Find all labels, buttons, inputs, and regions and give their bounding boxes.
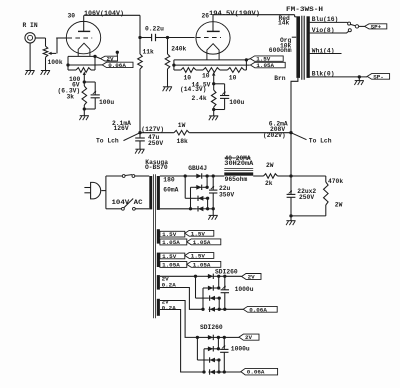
wire to 2V tag (95, 56, 101, 58)
resistor 10 ohm right (227, 68, 244, 73)
wire (196, 69, 203, 71)
svg-text:To Lch: To Lch (96, 138, 119, 145)
svg-text:Blu(16): Blu(16) (312, 16, 338, 23)
wire V2 plate up (212, 15, 214, 32)
switch power bottom pole (122, 199, 136, 211)
wire node A to 18k (140, 132, 174, 134)
wire bus right vert V2 (245, 60, 247, 70)
net label box 1.5V #2 (160, 253, 185, 260)
capacitor 100u bypass V2 (214, 84, 230, 110)
wire wiper riser (56, 38, 58, 53)
junction Blk ground (358, 75, 361, 78)
resistor 2k 2W (264, 174, 278, 179)
node A 126V (138, 131, 141, 134)
wire filament bus top (68, 55, 95, 57)
wire Blu tap (310, 21, 348, 23)
svg-text:240k: 240k (171, 46, 186, 53)
wire 2V#2 bottom routed (160, 310, 204, 373)
wire V2 grid (dashed) (196, 37, 221, 39)
svg-text:SP-: SP- (373, 73, 384, 80)
wire to 0.06A out tag 2 (224, 371, 241, 373)
svg-text:965ohm: 965ohm (225, 176, 248, 183)
wire to switch bottom (106, 208, 122, 210)
capacitor 100u bypass V1 (84, 82, 100, 109)
svg-text:10: 10 (229, 75, 237, 82)
wire Org tap stub (292, 36, 296, 38)
terminal tag 0.06A filament V1 (102, 62, 133, 69)
svg-text:194.5V(190V): 194.5V(190V) (209, 10, 260, 17)
input jack J1 R-IN (25, 33, 35, 43)
wire stub above 2V tag (116, 52, 118, 56)
wire to ground (358, 77, 360, 81)
wire to V1 grid (56, 37, 67, 39)
wiper arrow hum pot V2 (212, 72, 215, 76)
wire to primary bottom (135, 208, 149, 210)
wire filter bottom (291, 215, 326, 217)
svg-text:104V AC: 104V AC (112, 199, 143, 206)
power transformer T1 Kasuga O-BS70 (149, 174, 160, 318)
wire plate rail (84, 14, 140, 16)
svg-text:GBU4J: GBU4J (188, 165, 207, 172)
ground 47u (135, 149, 145, 153)
capacitor C1 0.22u coupling (140, 34, 168, 41)
net label box 1.05A #2 (160, 262, 187, 269)
resistor R 11k plate load V1 (138, 38, 143, 133)
svg-text:60mA: 60mA (163, 187, 178, 194)
svg-text:2V: 2V (248, 274, 256, 281)
wire to V2 grid (168, 37, 195, 39)
wire center tap down (213, 76, 215, 84)
wire to 0.06A tag (95, 64, 102, 66)
svg-text:1.5V: 1.5V (191, 253, 206, 260)
svg-text:3k: 3k (67, 93, 75, 100)
wire bus left vert V2 (173, 60, 175, 70)
svg-text:10: 10 (184, 75, 192, 82)
capacitor 1000u #1 (221, 276, 229, 309)
junction V1 cathode bottom (83, 107, 86, 110)
terminal tag 2V filament V1 (101, 56, 118, 63)
pointer line To Lch (left) (124, 133, 141, 141)
capacitor 47u 250V (135, 133, 145, 150)
wire to primary top (135, 175, 150, 177)
terminal tag 1.5V filament V2 (250, 56, 283, 63)
bridge rectifier SDI260 #2 (197, 335, 224, 375)
wire (68, 69, 76, 71)
svg-text:600ohm: 600ohm (269, 47, 292, 54)
capacitor 22ux2 250V (287, 176, 296, 216)
capacitor 22u 350V filter (209, 176, 217, 209)
label 40-20MA struck (225, 155, 251, 162)
wire Blk tap (310, 76, 368, 78)
wire bus right vert (94, 56, 96, 70)
wire 18k to node B (189, 132, 291, 134)
wire Vio tap (310, 32, 349, 33)
junction bus right (93, 55, 96, 58)
svg-text:126V: 126V (114, 125, 129, 132)
wire to fuse/switch top (106, 175, 122, 177)
svg-text:(202V): (202V) (263, 132, 286, 139)
switch power top pole (122, 175, 135, 178)
wire to ground (83, 109, 85, 116)
wire to 470k (291, 175, 326, 177)
terminal tag 1.05A #1 (187, 239, 221, 246)
svg-text:1000u: 1000u (231, 346, 250, 353)
ground V2 cathode (209, 116, 219, 120)
net label box 1.05A #1 (160, 239, 187, 246)
terminal tag 2V out #2 (239, 334, 259, 341)
svg-text:R IN: R IN (23, 22, 38, 29)
wire down to coupling node (139, 15, 141, 37)
svg-text:0.22u: 0.22u (145, 26, 164, 33)
potentiometer VR1 100k (43, 38, 56, 71)
svg-text:(14.3V): (14.3V) (180, 86, 206, 93)
resistor 470k 2W bleeder (324, 176, 329, 216)
ground jack (25, 71, 35, 75)
wire wiper down (83, 75, 85, 82)
node V2 grid (166, 36, 169, 39)
AC power plug (84, 182, 106, 199)
wire jack sleeve to ground (29, 43, 31, 71)
wire 180V top to bridge (160, 175, 185, 177)
resistor 3k cathode V1 (82, 82, 87, 109)
svg-text:30: 30 (68, 12, 76, 19)
terminal tag 0.06A out #1 (243, 306, 277, 313)
svg-text:1.05A: 1.05A (193, 261, 211, 268)
wire 180V bottom to bridge (160, 208, 197, 210)
wire OPT primary bottom to B+ node (291, 78, 298, 133)
terminal tag 1.5V #1 (185, 230, 214, 237)
svg-text:106V(104V): 106V(104V) (84, 10, 124, 17)
wire filament bus mid (68, 64, 95, 66)
wire V1 grid (dashed) (67, 37, 92, 39)
resistor 18k 1W (174, 130, 189, 135)
wire V1 plate up (83, 15, 85, 31)
node filter 200V (289, 174, 292, 177)
wire 2V#2 top routed (160, 301, 198, 338)
wire 2V#1 bottom routed (160, 288, 203, 310)
wire (91, 69, 95, 71)
junction bus left V2 (172, 63, 175, 66)
svg-text:250V: 250V (299, 194, 314, 201)
svg-text:1.5V: 1.5V (162, 231, 177, 238)
ground PSU (208, 215, 218, 219)
junction filter bottom (289, 214, 292, 217)
wire to 0.06A out tag (225, 308, 243, 310)
wire to ground (213, 110, 215, 116)
wire (220, 69, 228, 71)
junction bus right V2 (245, 58, 248, 61)
svg-text:0.06A: 0.06A (108, 62, 126, 69)
choke L1 30H 20mA 965ohm (213, 169, 263, 176)
svg-text:2k: 2k (265, 180, 273, 187)
svg-text:SDI260: SDI260 (200, 324, 223, 331)
ground V1 cathode (79, 116, 89, 120)
svg-text:1.05A: 1.05A (256, 62, 274, 69)
resistor 10 ohm left (181, 68, 196, 73)
svg-text:11k: 11k (143, 49, 155, 56)
wire 2V#1 top (160, 275, 196, 277)
wire node B down to filter node (290, 133, 292, 176)
tube V1 type 30 triode (66, 21, 100, 56)
svg-text:30H20mA: 30H20mA (224, 160, 253, 167)
junction cathode node V2 (212, 82, 215, 85)
svg-text:1.05A: 1.05A (162, 239, 180, 246)
wire Whi tap (310, 53, 342, 55)
wire to ground (212, 209, 214, 216)
wire (244, 69, 246, 71)
svg-text:2W: 2W (335, 202, 343, 209)
svg-text:Brn: Brn (274, 75, 286, 82)
terminal tag 1.05A #2 (187, 261, 221, 268)
svg-text:1.5V: 1.5V (162, 253, 177, 260)
wire 2k to filter node (278, 175, 292, 177)
svg-text:250V: 250V (148, 140, 163, 147)
svg-text:14k: 14k (278, 20, 290, 27)
svg-text:0.2A: 0.2A (162, 304, 177, 311)
ground speaker return (354, 81, 364, 85)
wire filament bus mid V2 (174, 64, 250, 66)
svg-text:2W: 2W (266, 162, 274, 169)
terminal tag 2V out #1 (242, 274, 261, 281)
svg-text:(127V): (127V) (141, 126, 164, 133)
resistor 2.4k cathode V2 (211, 84, 216, 110)
wire (67, 65, 69, 70)
svg-text:O-BS70: O-BS70 (145, 164, 168, 171)
svg-text:100u: 100u (229, 99, 244, 106)
resistor R 240k grid leak V2 (165, 38, 170, 87)
terminal Blu (348, 22, 351, 25)
resistor hum-balance V1 (76, 68, 91, 73)
node B 208V (289, 131, 292, 134)
wire to 2V out tag 2 (224, 336, 239, 338)
bridge rectifier GBU4J (185, 173, 213, 211)
wire jack to pot top (35, 37, 45, 39)
svg-text:0.2A: 0.2A (162, 281, 177, 288)
ground pot (41, 71, 51, 75)
wire to ground (290, 216, 292, 221)
wire to 1.5V tag (246, 59, 250, 60)
svg-text:1.05A: 1.05A (162, 262, 180, 269)
svg-text:SDI260: SDI260 (215, 269, 238, 276)
junction cathode node V1 (83, 80, 86, 83)
svg-text:To Lch: To Lch (309, 137, 332, 144)
svg-text:18k: 18k (177, 138, 189, 145)
svg-text:FM-3WS-H: FM-3WS-H (286, 6, 323, 13)
svg-text:10: 10 (202, 72, 210, 79)
wire (174, 69, 181, 71)
svg-text:1.05A: 1.05A (193, 239, 211, 246)
svg-text:SP+: SP+ (371, 23, 382, 30)
junction above 2V tag (116, 51, 119, 54)
output transformer T2 FM-3WS-H (295, 15, 310, 80)
tube V2 type 26 triode (196, 22, 230, 60)
svg-text:100u: 100u (99, 99, 114, 106)
terminal tag 1.05A filament V2 (250, 62, 285, 69)
capacitor 1000u #2 (220, 337, 228, 372)
terminal tag 1.5V #2 (185, 253, 214, 260)
svg-text:350V: 350V (219, 191, 234, 198)
terminal Vio (348, 29, 351, 32)
switch speaker tap selector (351, 24, 365, 28)
node V1 plate/coupling (138, 36, 141, 39)
net label box 1.5V #1 (160, 231, 185, 238)
terminal tag SP+ (365, 23, 387, 30)
svg-text:0.06A: 0.06A (247, 369, 265, 376)
junction V2 cathode bottom (212, 108, 215, 111)
svg-text:470k: 470k (328, 178, 343, 185)
pointer line To Lch (right) (291, 133, 307, 140)
svg-text:100k: 100k (48, 59, 63, 66)
wire filament bus top V2 (174, 59, 247, 61)
terminal tag SP- (367, 73, 389, 80)
wiper arrow hum pot V1 (83, 71, 86, 75)
bridge rectifier SDI260 #1 (196, 274, 225, 312)
wire plug splitter (105, 176, 107, 209)
wire to 2V out tag (225, 275, 242, 277)
svg-text:2V: 2V (245, 334, 253, 341)
resistor 10 ohm hum pot (203, 68, 220, 73)
svg-text:2.4k: 2.4k (192, 95, 207, 102)
junction bus left (66, 63, 69, 66)
svg-text:1000u: 1000u (235, 286, 254, 293)
svg-text:0.06A: 0.06A (249, 306, 267, 313)
svg-text:1W: 1W (178, 122, 186, 129)
ground 240k (163, 87, 173, 91)
wire bus left vert (67, 56, 69, 65)
svg-text:1.5V: 1.5V (191, 230, 206, 237)
terminal tag 0.06A out #2 (241, 368, 278, 375)
ground filter (286, 221, 296, 225)
wire plate to OPT (213, 14, 295, 16)
svg-text:180: 180 (163, 177, 175, 184)
